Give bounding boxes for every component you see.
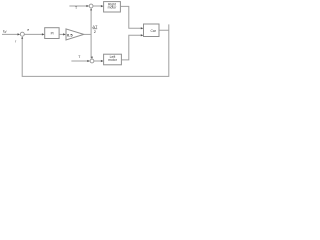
wire left motor to car — [121, 35, 141, 60]
background — [0, 0, 171, 80]
block Car — [144, 24, 160, 37]
block right motor — [104, 2, 121, 12]
gain triangle 0.5 — [66, 29, 84, 40]
svg-text:PI: PI — [51, 31, 54, 35]
summing junction S3 bottom — [90, 59, 94, 63]
svg-text:motor: motor — [108, 58, 118, 62]
wire car output and feedback loop — [22, 24, 169, 76]
wire T input bottom — [71, 60, 88, 62]
block left motor — [104, 54, 122, 65]
summing junction S1 — [20, 32, 24, 36]
summing junction S2 top — [89, 4, 93, 8]
wire PI to gain — [59, 33, 64, 35]
wire branch vertical — [90, 9, 92, 59]
wire gain to branch node — [84, 33, 91, 35]
svg-text:0.5: 0.5 — [67, 32, 73, 37]
block PI controller — [45, 28, 59, 39]
svg-text:rd: rd — [3, 28, 7, 34]
wire S3 to left motor — [94, 60, 102, 62]
wire input r_d — [2, 33, 18, 35]
wire right motor to car — [120, 6, 141, 28]
wire S2 to right motor — [93, 5, 102, 7]
wire T input top — [69, 5, 87, 7]
wire S1 to PI — [24, 33, 43, 35]
svg-text:Car: Car — [150, 29, 156, 33]
svg-text:motor: motor — [108, 6, 118, 10]
svg-text:e: e — [27, 28, 29, 32]
